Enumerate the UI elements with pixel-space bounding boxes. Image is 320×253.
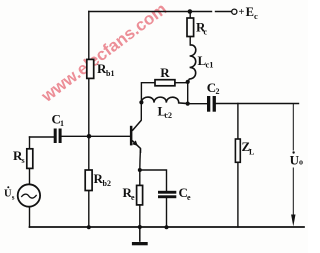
capacitor C2 bbox=[207, 96, 216, 112]
svg-text:s: s bbox=[12, 194, 15, 202]
transistor Q1 (NPN) bbox=[130, 120, 141, 153]
wire ZL branch bbox=[237, 104, 239, 228]
label Ce bbox=[179, 185, 192, 202]
inductor Lc1 bbox=[188, 45, 196, 82]
wire source branch left bbox=[29, 137, 31, 227]
terminal +Ec (open circle) bbox=[232, 9, 237, 14]
node junction dot emitter node bbox=[138, 168, 142, 172]
svg-text:c: c bbox=[204, 28, 208, 37]
resistor Rb2 bbox=[85, 170, 92, 191]
node junction dot Lc1 bottom / tank top right bbox=[186, 80, 190, 84]
label Re bbox=[123, 185, 136, 202]
svg-text:c1: c1 bbox=[206, 60, 214, 70]
node junction dot tank right / C2 node bbox=[186, 102, 190, 106]
node junction dot at Rc tap on supply rail bbox=[188, 9, 193, 14]
wire emitter node to Re bbox=[139, 170, 141, 227]
svg-text:e: e bbox=[187, 193, 191, 202]
svg-text:e: e bbox=[131, 193, 135, 202]
svg-text:b1: b1 bbox=[106, 69, 114, 78]
wire emitter down bbox=[139, 150, 142, 170]
svg-text:R: R bbox=[160, 65, 170, 80]
wire C2 to output node bbox=[216, 103, 299, 105]
source Us (AC signal source) bbox=[18, 184, 40, 206]
svg-text:2: 2 bbox=[216, 87, 220, 96]
label Uo bbox=[290, 151, 303, 167]
label Rb2 bbox=[94, 171, 111, 188]
node junction dot collector / tank left bbox=[139, 100, 143, 104]
wire output Uo sense line bbox=[292, 104, 294, 216]
label +Ec bbox=[239, 5, 259, 21]
wire collector up to tank bbox=[140, 102, 142, 119]
watermark www.elecfans.com bbox=[37, 0, 170, 106]
svg-text:U: U bbox=[4, 189, 12, 200]
svg-text:s: s bbox=[22, 156, 25, 165]
wire R right lead bbox=[175, 82, 188, 84]
wire Rc leads bbox=[189, 12, 191, 46]
svg-text:1: 1 bbox=[60, 119, 64, 128]
label C2 bbox=[207, 80, 220, 96]
wire emitter node to Ce bbox=[140, 170, 167, 227]
node junction dot rail-Re bbox=[138, 225, 142, 229]
svg-text:+: + bbox=[239, 7, 245, 18]
label Rb1 bbox=[97, 61, 114, 78]
label Lc2 bbox=[158, 104, 173, 121]
wire base line bbox=[30, 135, 131, 138]
wire top supply rail bbox=[89, 11, 232, 13]
node junction dot base node bbox=[87, 134, 92, 139]
label Us bbox=[4, 186, 15, 201]
capacitor C1 bbox=[54, 129, 62, 144]
svg-text:o: o bbox=[299, 158, 303, 167]
inductor Lc2 bbox=[141, 97, 187, 104]
label Rc bbox=[196, 20, 208, 37]
wire Lc1 bottom to C2 bbox=[188, 82, 207, 104]
label ZL bbox=[242, 139, 255, 157]
resistor R bbox=[155, 80, 175, 86]
label Rs bbox=[13, 148, 25, 165]
wire R left lead and collector vertical bbox=[141, 83, 155, 103]
svg-text:L: L bbox=[249, 148, 254, 157]
capacitor Ce bbox=[158, 191, 176, 198]
wire bias divider vertical (Rb1/Rb2 branch) bbox=[88, 12, 90, 228]
label C1 bbox=[52, 112, 65, 129]
svg-text:b2: b2 bbox=[103, 179, 111, 188]
svg-text:www.elecfans.com: www.elecfans.com bbox=[37, 0, 170, 106]
node junction dot rail-Rb2 bbox=[87, 225, 91, 229]
resistor Rs bbox=[27, 149, 33, 169]
svg-text:c2: c2 bbox=[165, 111, 173, 120]
wire bottom ground rail bbox=[30, 226, 305, 228]
resistor Rb1 bbox=[87, 59, 94, 78]
svg-text:c: c bbox=[254, 11, 258, 21]
resistor Rc bbox=[187, 18, 194, 37]
label Lc1 bbox=[198, 53, 214, 70]
output arrow Uo bbox=[291, 215, 295, 227]
load ZL bbox=[235, 139, 240, 162]
resistor Re bbox=[137, 185, 143, 205]
node junction dot rail-Ce bbox=[165, 225, 169, 229]
svg-text:E: E bbox=[246, 5, 254, 19]
ground bbox=[132, 227, 148, 245]
